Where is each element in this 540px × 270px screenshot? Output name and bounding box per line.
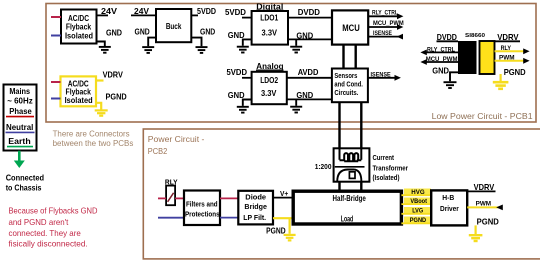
wire: 5VDD into LDO1	[242, 17, 252, 19]
svg-text:GND: GND	[200, 26, 215, 36]
svg-text:1:200: 1:200	[315, 162, 332, 171]
svg-text:Driver: Driver	[440, 206, 459, 213]
svg-text:5VDD: 5VDD	[225, 7, 246, 17]
net PGND (highlighted)	[401, 217, 431, 225]
svg-text:~ 60Hz: ~ 60Hz	[7, 96, 32, 105]
svg-text:(Isolated): (Isolated)	[373, 173, 401, 182]
ground (isolator)	[444, 82, 457, 88]
note: There are Connectors between the two PCBs	[53, 129, 134, 148]
svg-text:between the two PCBs: between the two PCBs	[53, 139, 134, 148]
svg-text:24V: 24V	[134, 6, 149, 16]
svg-text:5VDD: 5VDD	[197, 6, 216, 16]
svg-text:Circuits.: Circuits.	[334, 90, 358, 97]
svg-text:Flyback: Flyback	[66, 23, 92, 32]
wire: GND LDO2 to sensors	[287, 98, 332, 100]
relay K1 box	[166, 186, 175, 206]
svg-text:PGND: PGND	[266, 226, 286, 236]
T1 secondary winding	[340, 153, 362, 161]
ground (LDO2/sensors)	[290, 107, 302, 113]
ground (LDO2 left)	[237, 107, 249, 113]
wire: buck right GND to ground	[191, 38, 201, 47]
wire: neutral into flyback2 (blue)	[51, 98, 61, 100]
note: Connected to Chassis	[6, 174, 44, 193]
wire: LDO2 left GND to ground	[243, 100, 252, 106]
neutral underline (blue)	[6, 131, 35, 133]
wire: flyback1 24V stub	[97, 14, 109, 16]
wire: transformer to half-bridge (left leg)	[338, 182, 340, 192]
ground (LDO1/MCU)	[290, 47, 302, 53]
net HVG (highlighted)	[401, 189, 431, 197]
wire: sensors to transformer (right leg)	[360, 102, 362, 158]
wire: 5VDD into LDO2	[242, 77, 252, 79]
buck converter U2	[156, 9, 191, 42]
half-bridge + load block	[293, 191, 401, 224]
ground (flyback1)	[99, 47, 111, 53]
svg-text:connected. They are: connected. They are	[9, 228, 82, 238]
wire: phase into flyback1 (red)	[51, 16, 61, 18]
note: red disclaimer text	[9, 206, 98, 249]
svg-text:Earth: Earth	[8, 137, 31, 146]
svg-text:VDRV: VDRV	[497, 32, 519, 42]
svg-text:Isolated: Isolated	[65, 32, 93, 41]
svg-text:LDO2: LDO2	[260, 75, 278, 85]
svg-text:There are Connectors: There are Connectors	[53, 129, 130, 138]
svg-text:Isolated: Isolated	[65, 96, 93, 105]
svg-text:VBoot: VBoot	[410, 198, 427, 205]
wire: buck left GND to ground	[148, 38, 156, 47]
T1 primary conductor (arc)	[337, 169, 361, 181]
isolator left half (black)	[458, 41, 477, 74]
filters and protections block	[184, 191, 220, 226]
wire: GND LDO1 to MCU	[288, 38, 332, 40]
wire: flyback2 PGND to ground (yellow)	[96, 103, 101, 110]
diode bridge + LP filter block	[238, 191, 273, 225]
ground (LDO1 left)	[237, 47, 249, 53]
ground PGND (diode bridge, yellow)	[284, 235, 296, 241]
wire: AVDD LDO2 to sensors	[287, 77, 332, 79]
wire: MCU to sensors (bus 2)	[355, 45, 357, 69]
T1 name label	[373, 153, 409, 182]
PCB1 border (Low Power Circuit)	[46, 4, 536, 123]
svg-text:and Cond.: and Cond.	[334, 82, 363, 89]
svg-text:MCU: MCU	[342, 23, 360, 33]
H-B driver U5	[431, 190, 467, 225]
T1 core bar	[335, 166, 365, 168]
wire: phase to relay (red)	[158, 197, 166, 199]
svg-text:VDRV: VDRV	[103, 70, 124, 80]
T1 primary notch	[349, 172, 355, 179]
svg-text:Sensors: Sensors	[334, 73, 357, 80]
svg-text:3.3V: 3.3V	[261, 88, 277, 98]
wire: driver PGND to ground (yellow)	[475, 225, 477, 234]
mains input block	[4, 85, 37, 151]
svg-text:PCB2: PCB2	[148, 146, 168, 156]
svg-text:PGND: PGND	[477, 217, 499, 227]
wire: phase into flyback2 (red)	[51, 81, 61, 83]
svg-text:AVDD: AVDD	[298, 67, 319, 77]
svg-text:Bridge: Bridge	[244, 204, 267, 211]
LDO2 3.3V	[252, 72, 287, 104]
svg-text:Transformer: Transformer	[373, 163, 409, 172]
svg-text:GND: GND	[135, 27, 150, 37]
svg-text:5VDD: 5VDD	[227, 67, 248, 77]
svg-text:Mains: Mains	[9, 87, 30, 96]
sensors and conditioning circuits block	[332, 69, 368, 103]
wire: GND drop to ground	[295, 99, 297, 105]
svg-text:H-B: H-B	[442, 195, 454, 202]
net VBoot (highlighted)	[401, 198, 431, 206]
svg-text:to Chassis: to Chassis	[6, 184, 42, 193]
wire: filters to diode bridge (blue)	[220, 217, 238, 219]
wire: flyback1 GND to ground	[97, 42, 105, 47]
current transformer T1 box	[334, 148, 370, 181]
svg-text:Half-Bridge: Half-Bridge	[333, 194, 367, 203]
ground PGND (isolator, yellow)	[493, 82, 509, 89]
wire: MCU to sensors (bus 1)	[342, 45, 344, 69]
wire: neutral into flyback1 (blue)	[51, 35, 61, 37]
LDO1 3.3V	[252, 11, 288, 45]
svg-text:Buck: Buck	[166, 21, 182, 31]
wire: relay to filters (red)	[175, 197, 184, 199]
svg-text:and PGND aren't: and PGND aren't	[9, 217, 69, 227]
svg-text:Filters and: Filters and	[186, 202, 218, 209]
wire: GND drop to ground	[295, 39, 297, 45]
wire: isolator PGND to ground (yellow)	[500, 74, 502, 81]
svg-text:PGND: PGND	[410, 217, 427, 224]
svg-text:SI8660: SI8660	[465, 33, 485, 39]
MCU U3	[332, 10, 368, 44]
wire: 24V into buck	[131, 14, 156, 16]
flyback 1 (AC/DC Flyback Isolated)	[61, 10, 97, 44]
svg-text:LVG: LVG	[412, 208, 423, 215]
wire: transformer to half-bridge (right leg)	[360, 182, 362, 192]
relay switch contact	[168, 193, 174, 202]
svg-text:Connected: Connected	[6, 174, 44, 183]
svg-text:HVG: HVG	[411, 189, 424, 196]
svg-text:Phase: Phase	[9, 107, 32, 116]
ground (buck left)	[142, 47, 154, 53]
wire: DVDD LDO1 to MCU	[288, 17, 332, 19]
wire: sensors leg reenter	[339, 148, 341, 160]
ground PGND (driver, yellow)	[469, 235, 483, 241]
label: Power Circuit - PCB2	[148, 134, 205, 156]
svg-text:Low Power Circuit - PCB1: Low Power Circuit - PCB1	[432, 111, 533, 121]
wire: flyback2 VDRV stub (yellow)	[96, 79, 104, 81]
PCB2 border (Power Circuit)	[143, 129, 540, 259]
svg-text:Neutral: Neutral	[6, 123, 33, 132]
wire: neutral to filters (blue)	[158, 217, 184, 219]
svg-text:PGND: PGND	[504, 67, 526, 77]
flyback 2 (AC/DC Flyback Isolated, isolated domain)	[61, 76, 97, 106]
svg-text:LDO1: LDO1	[260, 13, 278, 23]
svg-text:Protections: Protections	[185, 212, 220, 219]
wire: isolator GND to ground	[450, 72, 458, 81]
wire: LDO1 left GND to ground	[243, 39, 252, 45]
svg-text:fisically disconnected.: fisically disconnected.	[9, 238, 88, 248]
phase underline (red)	[6, 116, 34, 118]
svg-text:GND: GND	[432, 66, 449, 76]
svg-text:Load: Load	[341, 215, 354, 224]
ground (buck right)	[196, 47, 208, 53]
wire: V+ diode bridge to half-bridge	[273, 197, 293, 199]
wire: sensors to transformer (left leg)	[338, 102, 340, 158]
svg-text:LP Filt.: LP Filt.	[243, 215, 266, 222]
svg-text:Because of Flybacks GND: Because of Flybacks GND	[9, 206, 98, 216]
isolator right half (yellow)	[480, 41, 495, 74]
svg-text:3.3V: 3.3V	[262, 27, 278, 37]
svg-text:24V: 24V	[101, 6, 118, 16]
wire: filters to diode bridge (red)	[220, 197, 238, 199]
wire: PGND diode bridge to half-bridge (yellow)	[273, 218, 293, 234]
svg-text:DVDD: DVDD	[298, 7, 320, 17]
earth-to-chassis arrow (green)	[14, 151, 25, 168]
net LVG (highlighted)	[401, 207, 431, 215]
svg-text:Power Circuit -: Power Circuit -	[148, 134, 205, 144]
wire: buck 5VDD stub	[191, 14, 198, 16]
svg-text:GND: GND	[106, 28, 122, 38]
svg-text:Diode: Diode	[245, 194, 266, 201]
svg-text:PGND: PGND	[106, 92, 127, 102]
svg-text:Current: Current	[373, 153, 395, 162]
ground PGND (flyback2, yellow)	[95, 110, 108, 115]
earth underline (green)	[7, 146, 33, 148]
